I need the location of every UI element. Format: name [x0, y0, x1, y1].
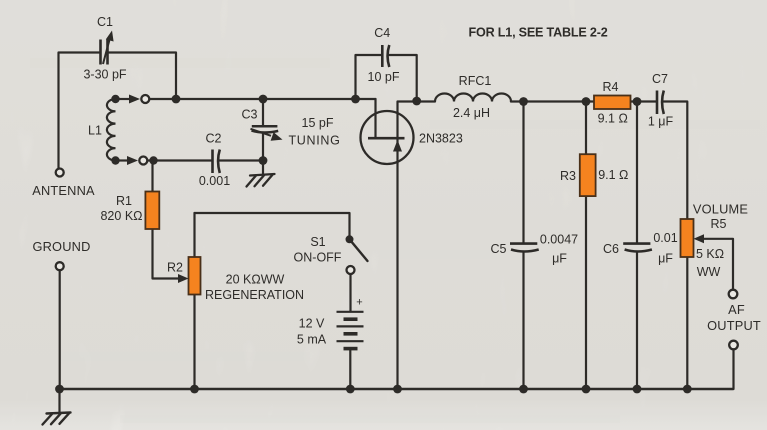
svg-text:FOR L1, SEE TABLE 2-2: FOR L1, SEE TABLE 2-2: [468, 26, 607, 40]
wire transistor source lead down to bus: [396, 139, 398, 389]
svg-text:C6: C6: [603, 242, 619, 256]
node R4 right junction: [633, 97, 642, 106]
svg-text:3-30 pF: 3-30 pF: [83, 68, 126, 82]
wire bus to chassis ground: [58, 389, 60, 413]
svg-text:OUTPUT: OUTPUT: [707, 318, 761, 333]
wire R1 top lead: [151, 161, 153, 192]
svg-text:10 pF: 10 pF: [368, 70, 400, 84]
inductor L1: [107, 99, 116, 160]
node bus R2 junction: [190, 385, 199, 394]
wire C6 to bus: [636, 252, 638, 389]
transistor Q1 2N3823: [361, 111, 414, 164]
wire L1 bottom tap to C2: [148, 159, 213, 161]
svg-text:C3: C3: [242, 108, 258, 122]
node bus R3 junction: [582, 385, 591, 394]
resistor R4: [594, 96, 631, 110]
node tank bottom junction: [149, 156, 157, 164]
svg-text:AF: AF: [728, 302, 745, 317]
svg-text:R3: R3: [560, 169, 576, 183]
svg-text:ON-OFF: ON-OFF: [294, 251, 342, 265]
wire C5 to bus: [522, 252, 524, 389]
capacitor C5: [510, 244, 539, 252]
svg-text:C4: C4: [374, 26, 390, 40]
svg-text:GROUND: GROUND: [32, 239, 90, 254]
svg-text:R2: R2: [167, 261, 183, 275]
capacitor C1: [101, 31, 114, 65]
svg-text:0.0047: 0.0047: [540, 233, 578, 247]
svg-text:RFC1: RFC1: [459, 74, 492, 88]
node bus R5 junction: [683, 385, 692, 394]
svg-text:9.1 Ω: 9.1 Ω: [598, 112, 628, 126]
resistor R2 (regeneration rheostat): [189, 257, 201, 295]
resistor R5 (volume pot): [681, 219, 694, 257]
svg-text:ANTENNA: ANTENNA: [32, 183, 95, 198]
node bus C6 junction: [633, 385, 642, 394]
capacitor C7: [657, 91, 664, 115]
wire R3 branch top: [585, 102, 587, 155]
svg-text:2.4 μH: 2.4 μH: [453, 106, 490, 120]
wire R1 bottom to R2 wiper: [153, 229, 180, 279]
wire C2 right plate to C3 node: [220, 159, 264, 161]
node bus battery junction: [346, 385, 355, 394]
node bus ground junction: [55, 385, 64, 394]
resistor R3: [580, 154, 596, 196]
node C4 left junction: [351, 95, 360, 104]
svg-text:C7: C7: [652, 72, 668, 86]
node C3 top junction: [259, 95, 268, 104]
wire C4 right branch: [389, 55, 417, 102]
svg-text:REGENERATION: REGENERATION: [205, 288, 304, 302]
node C2/C3 junction: [259, 156, 268, 165]
wire R2 net top rail: [195, 213, 350, 239]
svg-text:5 mA: 5 mA: [297, 333, 327, 347]
svg-text:L1: L1: [88, 124, 102, 138]
wire R3 to bus: [585, 196, 587, 389]
wire transistor drain lead: [398, 102, 417, 138]
wire C4 left branch: [356, 55, 382, 99]
wire R2 top lead: [193, 213, 195, 257]
wire C3 to ground: [262, 134, 264, 174]
svg-text:μF: μF: [552, 252, 567, 266]
svg-text:2N3823: 2N3823: [419, 132, 463, 146]
svg-text:TUNING: TUNING: [288, 134, 340, 148]
L1 top tap arrow: [119, 95, 140, 104]
terminal AF OUTPUT upper: [729, 290, 738, 299]
inductor RFC1: [435, 94, 511, 102]
wire C5 branch vertical: [522, 102, 524, 244]
wire drain run to RFC1: [417, 100, 435, 102]
capacitor C6: [623, 244, 652, 252]
svg-text:R1: R1: [116, 194, 132, 208]
L1 bottom tap arrow: [119, 156, 138, 165]
svg-text:9.1 Ω: 9.1 Ω: [598, 168, 628, 182]
node C4 right junction: [412, 97, 421, 106]
svg-text:S1: S1: [310, 235, 325, 249]
svg-text:VOLUME: VOLUME: [693, 202, 748, 217]
wire C1 left loop from antenna up to C1: [59, 53, 101, 169]
terminal GROUND: [56, 262, 64, 270]
L1 top tap terminal circle: [141, 95, 149, 103]
chassis ground symbol bottom left: [43, 413, 71, 425]
svg-text:5 KΩ: 5 KΩ: [696, 247, 724, 261]
node L1 top tap junction: [111, 95, 119, 103]
wire C1 right side down to tank node: [108, 53, 177, 100]
R5 wiper arrowhead: [694, 234, 705, 243]
svg-text:C2: C2: [206, 132, 222, 146]
wire ground terminal to bus: [59, 271, 61, 390]
node R4 left junction: [582, 97, 591, 106]
svg-text:C1: C1: [97, 15, 113, 29]
node C1 tank top junction: [172, 95, 181, 104]
L1 bottom tap terminal circle: [139, 157, 147, 165]
wire switch to battery: [349, 274, 351, 312]
svg-text:1 μF: 1 μF: [648, 115, 674, 129]
svg-text:R5: R5: [711, 217, 727, 231]
svg-text:15 pF: 15 pF: [302, 116, 334, 130]
capacitor C4: [382, 45, 389, 67]
wire R5 to bus: [686, 257, 688, 389]
terminal AF OUTPUT lower: [729, 341, 738, 350]
wire RFC1 to C5 node to R4: [511, 100, 594, 102]
svg-text:WW: WW: [697, 265, 721, 279]
svg-text:12 V: 12 V: [299, 317, 325, 331]
wire battery to bus: [349, 349, 351, 389]
switch S1: [346, 235, 368, 274]
svg-text:μF: μF: [658, 252, 673, 266]
node RFC1/C5 junction: [519, 97, 528, 106]
svg-text:20 KΩWW: 20 KΩWW: [226, 273, 285, 287]
wire main bus gate run: [150, 98, 376, 100]
wire ground bus bottom: [60, 388, 734, 391]
resistor R1: [145, 192, 159, 230]
wire C3 branch vertical: [262, 99, 264, 126]
wire R5 wiper to AF output: [699, 239, 733, 290]
svg-text:0.01: 0.01: [653, 231, 677, 245]
svg-text:R4: R4: [603, 80, 619, 94]
wire R2 bottom to bus: [193, 295, 195, 390]
svg-text:0.001: 0.001: [199, 174, 230, 188]
node bus C5 junction: [519, 385, 528, 394]
wire R4 to C7: [631, 100, 657, 102]
node bus source junction: [393, 385, 402, 394]
wire transistor gate lead: [374, 99, 376, 137]
wire C6 branch vertical: [636, 102, 638, 244]
terminal ANTENNA: [56, 169, 64, 177]
wire C7 to R5 branch: [663, 102, 688, 220]
node L1 bottom tap junction: [111, 156, 119, 164]
capacitor C2: [213, 150, 220, 174]
ground symbol at C3: [247, 174, 275, 187]
svg-text:820 KΩ: 820 KΩ: [100, 209, 142, 223]
R2 wiper arrowhead: [178, 274, 189, 283]
battery B1 12V: [337, 312, 364, 349]
capacitor C3 (variable): [251, 126, 283, 141]
wire AF output lower terminal to bus: [732, 350, 734, 390]
svg-text:C5: C5: [491, 242, 507, 256]
svg-text:+: +: [356, 297, 362, 309]
